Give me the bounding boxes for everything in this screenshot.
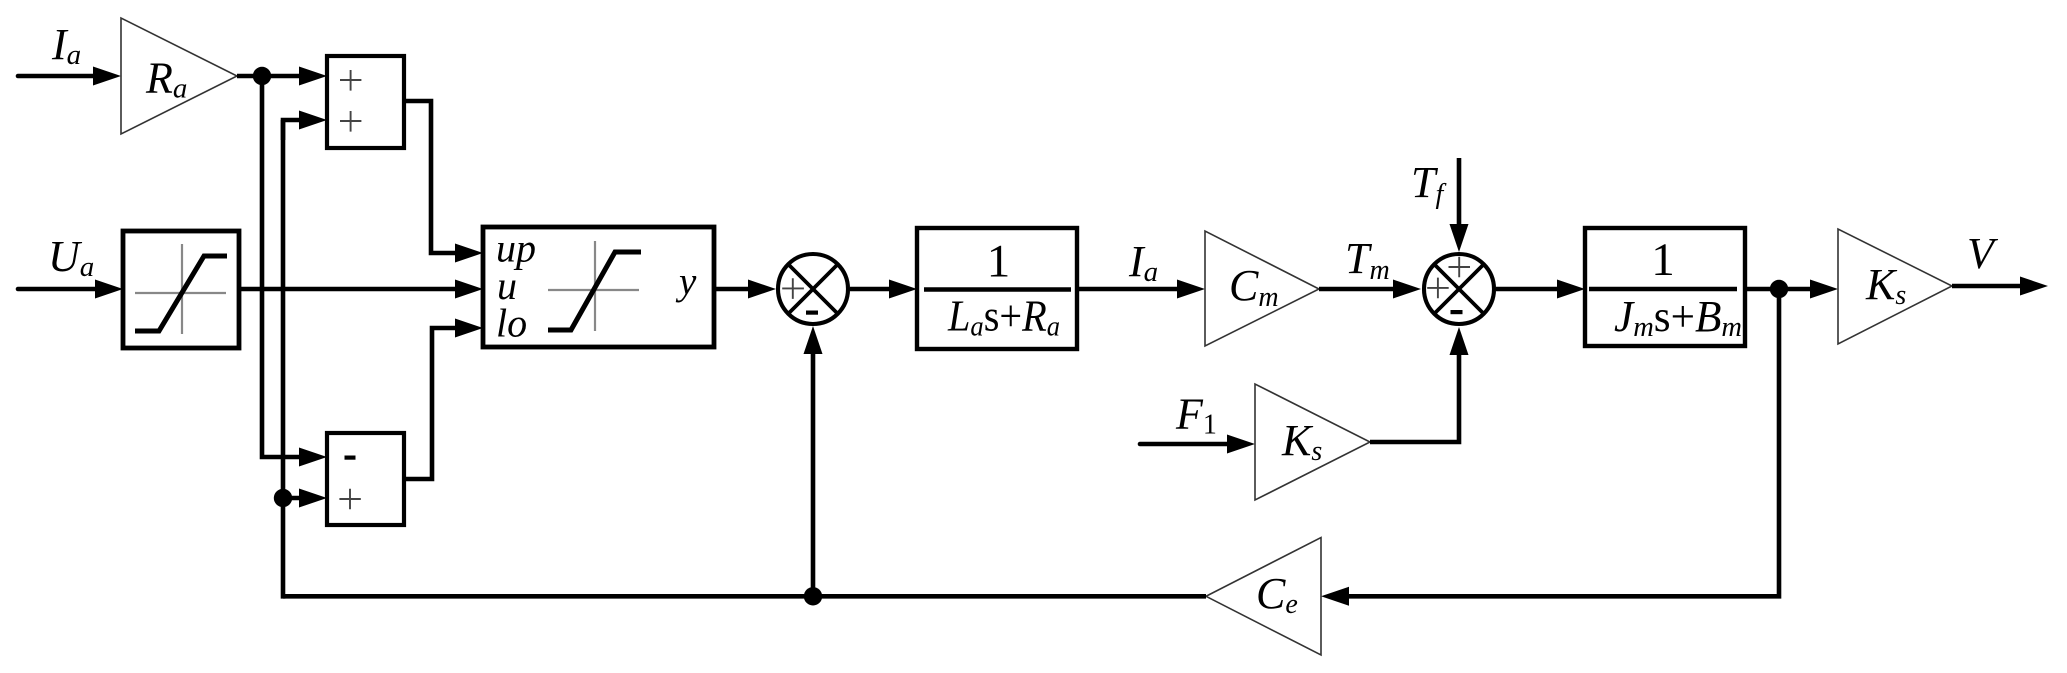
wire feedback into S1 lower input [283,111,327,141]
node B [274,489,292,507]
wire input Ua [18,280,123,299]
saturation block SAT1 [123,231,239,348]
wire node B to S2 plus input [283,489,327,508]
gain Cm [1205,231,1319,346]
sum junction SJ2 [1424,254,1494,324]
wire input F1 [1140,390,1255,454]
sum block S1 [327,56,404,148]
wire SJ1 to TF1 [850,280,917,299]
wire A to sum S1 [237,67,327,86]
saturation dynamic block SAT2 [483,226,714,348]
wire SJ2 to TF2 [1496,280,1585,299]
wire node C down and left to Ce input [1321,289,1779,606]
wire Ra branch down to S2 minus input [262,76,327,467]
svg-text:lo: lo [496,301,527,346]
wire node D up into SJ1 bottom [804,326,823,596]
svg-text:1: 1 [1651,234,1675,286]
wire S1 output to up input [404,101,483,263]
sum junction SJ1 [778,254,848,324]
wire SAT1 output to u input [239,280,483,299]
wire Ks2 apex up into SJ2 bottom [1370,327,1469,442]
block TF2 1/(Jm s+Bm) [1585,228,1745,346]
wire Ce output left then up to feedback vertical [283,594,1206,599]
gain Ks output [1838,229,1952,344]
wire TF2 to node C to gain Ks [1745,280,1838,299]
svg-text:y: y [675,260,697,303]
gain Ra [121,18,237,134]
block TF1 1/(La s+Ra) [917,228,1077,349]
gain Ce (left pointing) [1206,538,1321,656]
node C [1770,280,1788,298]
node A [253,67,271,85]
wire TF1 to gain Cm, label Ia [1077,237,1205,299]
node D [804,587,822,605]
gain Ks2 (F1 path) [1255,384,1370,500]
wire Cm to SJ2, label Tm [1319,234,1421,299]
label Tf and wire into SJ2 top [1411,158,1469,252]
wire input Ia [18,67,121,86]
wire output V [1952,229,2048,296]
wire S2 output to lo input [404,319,483,480]
wire feedback vertical [281,120,286,599]
svg-text:Las+Ra: Las+Ra [947,292,1060,343]
sum block S2 [327,433,404,525]
svg-text:1: 1 [987,235,1011,287]
wire y output to sum junction SJ1 [714,280,776,299]
